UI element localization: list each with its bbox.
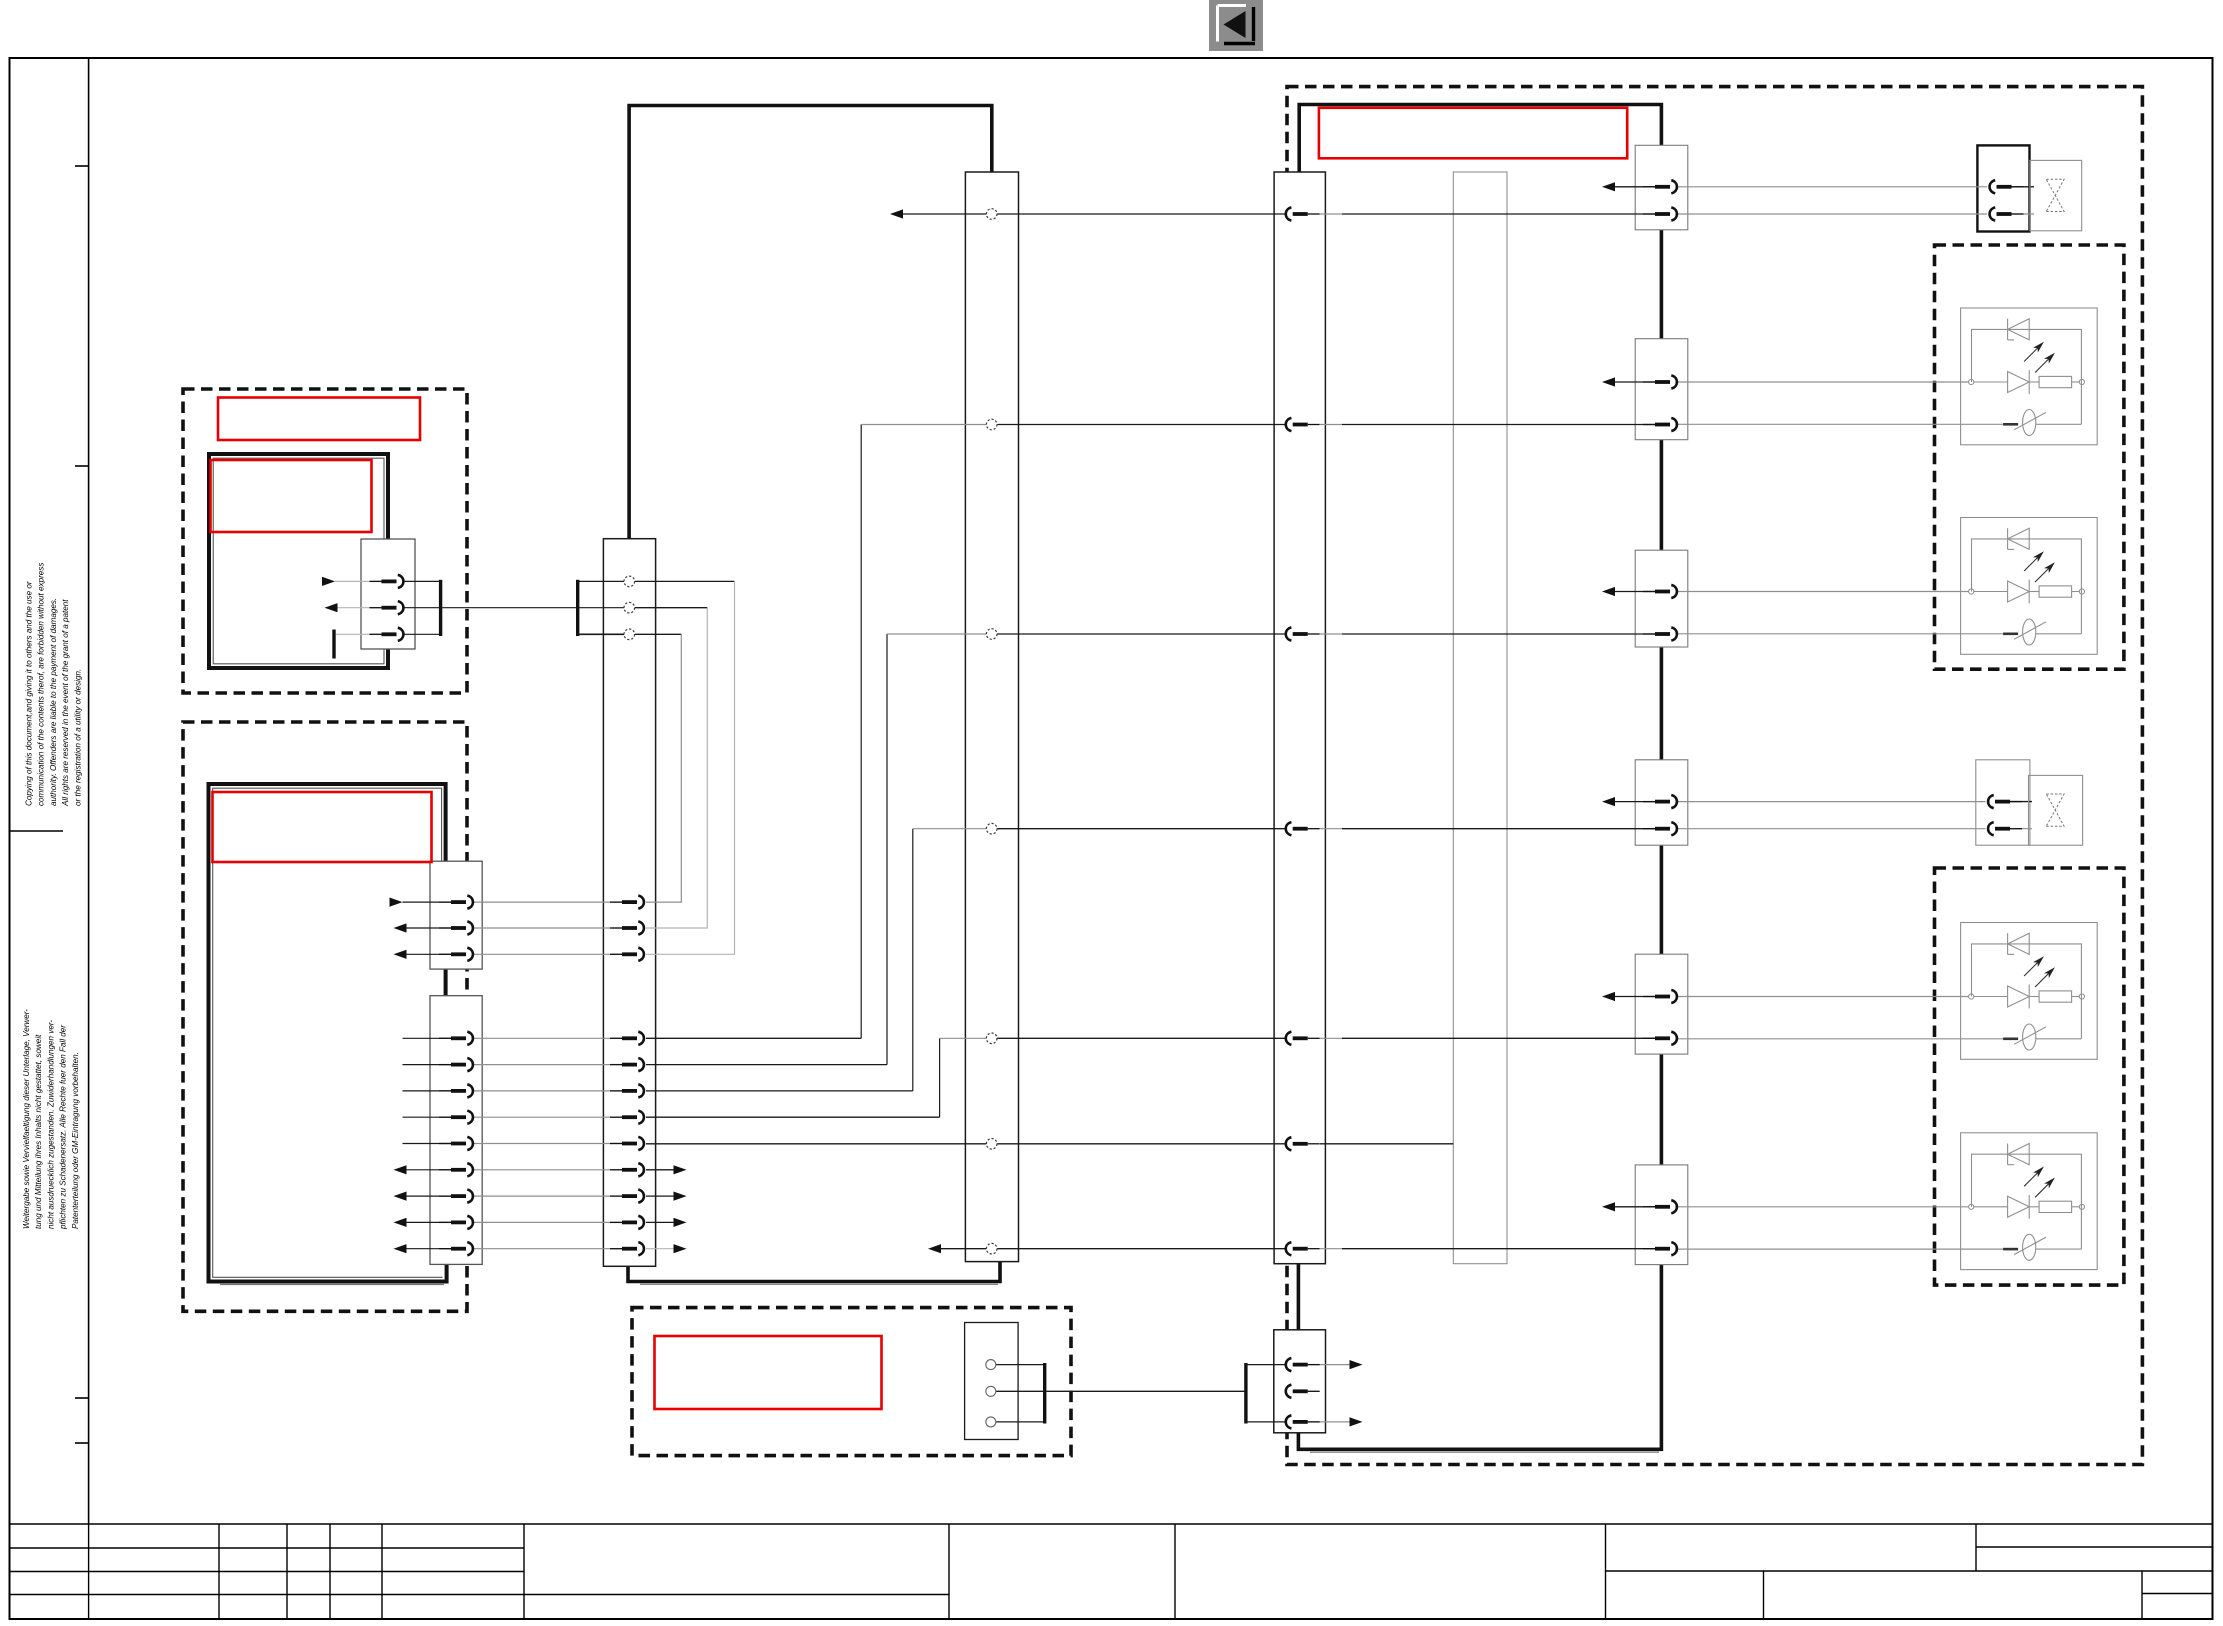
wire X8.5a lead	[1615, 996, 1655, 998]
connector X2a on K2	[430, 861, 482, 969]
wire X8 to E2 (lamp row)	[1678, 633, 2004, 635]
signal arrow X8.2a	[1602, 377, 1615, 386]
signal arrow X6.g	[928, 1244, 941, 1253]
valve connector Y1 box	[1977, 145, 2029, 231]
wire X8 to E1 (led row)	[1678, 381, 1970, 383]
sensor dashed enclosure bottom	[632, 1308, 1071, 1456]
socket circle X9.3	[986, 1417, 996, 1427]
wire Y2.2 into valve	[2009, 828, 2032, 830]
wire K1 pin2 internal	[338, 607, 383, 609]
wire X8 to E1 (lamp row)	[1678, 423, 2004, 425]
pin X2b.2	[439, 1058, 473, 1071]
pin X8.3b	[1643, 627, 1677, 640]
wire K2 lower pin9 internal	[407, 1248, 452, 1250]
LED indicator module E4	[1961, 1133, 2098, 1270]
wire X8 to E2 (led row)	[1678, 591, 1970, 593]
wire X6.g to X7	[997, 1248, 1285, 1250]
svg-text:nicht ausdruecklich zugestande: nicht ausdruecklich zugestanden. Zuwider…	[46, 1020, 55, 1229]
wire stub B4 row3	[1246, 1421, 1286, 1423]
socket circle X5.c	[624, 629, 635, 640]
label placeholder K1 inner	[211, 460, 372, 532]
supply wire X5 top (thick)	[629, 106, 992, 539]
wire net1038 riser	[860, 425, 862, 1039]
wire net1091 top	[913, 828, 987, 830]
pin X7.3	[1286, 627, 1320, 640]
socket circle X6.f	[986, 1139, 997, 1150]
connector column X5	[603, 539, 655, 1267]
module K1 thick body outline	[209, 454, 388, 668]
harness dashed enclosure right	[1287, 87, 2142, 1465]
socket circle X5.a	[624, 576, 635, 587]
pin X5 lower.7	[610, 1190, 644, 1203]
pin X10.3	[1286, 1415, 1320, 1428]
junction bracket B3	[1043, 1363, 1046, 1424]
connector box X8.1	[1635, 145, 1688, 230]
pin X2a.3	[439, 948, 473, 961]
wire X9.2 to X10	[996, 1390, 1246, 1392]
wire stub B2 row3	[578, 633, 624, 635]
copyright notice english (rotated)	[25, 563, 83, 807]
back navigation button	[1209, 0, 1263, 51]
pin X8.3a	[1643, 585, 1677, 598]
label placeholder K2	[213, 792, 432, 862]
pin X2b.5	[439, 1137, 473, 1150]
LED indicator module E1	[1961, 308, 2098, 445]
signal arrow in K1.2	[325, 603, 338, 612]
connector column X7	[1274, 172, 1325, 1264]
wire X5.c loop	[635, 633, 681, 635]
thick wire X5-X6 bottom	[628, 1262, 1000, 1282]
signal arrow out K1.1	[322, 577, 335, 586]
wire Y2.1 into valve	[2009, 801, 2032, 803]
pin X7.4	[1286, 822, 1320, 835]
wire K2 pin2 internal	[407, 927, 452, 929]
wire net1064 riser	[886, 634, 888, 1065]
pin X8.4b	[1643, 822, 1677, 835]
svg-text:authority. Offenders are liabl: authority. Offenders are liable to the p…	[49, 598, 58, 806]
pin X7.7	[1286, 1242, 1320, 1255]
label placeholder top right	[1319, 108, 1627, 159]
wire K1 to column X5 (middle)	[404, 607, 624, 609]
connector box X8.5	[1635, 954, 1688, 1054]
socket circle X6.d	[986, 823, 997, 834]
pin X8.4a	[1643, 795, 1677, 808]
wire K2 pin1 internal	[403, 901, 452, 903]
svg-text:tung und Mitteilung ihres Inha: tung und Mitteilung ihres Inhalts nicht …	[34, 1034, 43, 1229]
solenoid valve Y1 symbol	[2030, 160, 2082, 230]
wire X5 out arrow 3	[646, 1221, 674, 1223]
wire X7 row3 to X8.3	[1320, 633, 1342, 635]
module K1 inner echo	[213, 458, 384, 664]
wire K2 lower pin8 internal	[407, 1221, 452, 1223]
signal arrow in K2 lower pin8	[394, 1218, 407, 1227]
pin X8.1b	[1643, 207, 1677, 220]
wire Y1.2 into valve	[2011, 213, 2035, 215]
wire X6.a to X7	[997, 213, 1285, 215]
connector box X8.6	[1635, 1165, 1688, 1265]
wire X5 out arrow 2	[646, 1195, 674, 1197]
pin X5 lower.6	[610, 1163, 644, 1176]
indicator dashed sub-enclosure 2	[1935, 868, 2124, 1285]
frame inner column line	[88, 58, 90, 1524]
wire net1091 horizontal	[646, 1090, 913, 1092]
pin X8.2a	[1643, 375, 1677, 388]
frame text divider	[10, 830, 64, 832]
frame tick 4	[75, 1442, 89, 1444]
socket circle X5.b	[624, 602, 635, 613]
wire K1 pin1 internal	[335, 580, 382, 582]
wire X7 row6 stub	[1320, 1143, 1453, 1145]
signal arrow X8.3a	[1602, 587, 1615, 596]
wire X8 to E3 (led row)	[1678, 996, 1970, 998]
svg-text:or the registration of a utili: or the registration of a utility or desi…	[73, 669, 82, 806]
wire net1144 horizontal	[646, 1143, 986, 1145]
connector box X8.4	[1635, 760, 1688, 845]
wire X6.d to X7	[997, 828, 1285, 830]
wire net1064 top	[887, 633, 986, 635]
thick wire X7 bottom link	[1297, 1264, 1301, 1330]
wire X8 to E3 (lamp row)	[1678, 1038, 2004, 1040]
wire net1091 riser	[912, 829, 914, 1091]
pin X10.1	[1286, 1358, 1320, 1371]
wire net1117 riser	[939, 1038, 941, 1117]
signal arrow X10.3	[1350, 1417, 1363, 1426]
pin X7.1	[1286, 207, 1320, 220]
wire X5.b loop	[635, 607, 707, 609]
wire X10.1 out	[1307, 1364, 1352, 1366]
pin Y2.1	[1988, 795, 2022, 808]
control unit K2 dashed enclosure	[183, 722, 467, 1311]
wire X5.a riser	[646, 581, 735, 954]
wire X6.b to X7	[997, 424, 1285, 426]
svg-text:Weitergabe sowie Vervielfaelti: Weitergabe sowie Vervielfaeltigung diese…	[22, 1009, 31, 1229]
signal arrow X5.3	[674, 1218, 687, 1227]
wire X8.1b to Y1	[1678, 213, 1988, 215]
wire K2 lower pin3 internal	[403, 1090, 452, 1092]
pin X7.2	[1286, 418, 1320, 431]
wire X8.4b to Y2	[1678, 828, 1986, 830]
pin X7.5	[1286, 1032, 1320, 1045]
socket circle X6.a	[986, 209, 997, 220]
indicator dashed sub-enclosure 1	[1935, 245, 2124, 669]
signal arrow in K2 lower pin6	[394, 1165, 407, 1174]
signal arrow in K2 lower pin9	[394, 1244, 407, 1253]
wire K2 lower pin6 internal	[407, 1169, 452, 1171]
signal arrow X6.a	[890, 209, 903, 218]
thick chain echo	[1310, 1451, 1659, 1453]
wire X5.c riser	[646, 634, 681, 902]
wire net1038 top	[861, 424, 986, 426]
signal arrow in K2.2	[394, 923, 407, 932]
wire X8.2a lead	[1615, 381, 1655, 383]
LED indicator module E3	[1961, 923, 2098, 1060]
svg-text:communication of the contents: communication of the contents therof, ar…	[37, 563, 46, 806]
connector box X8.3	[1635, 550, 1688, 647]
wire net1038 horizontal	[646, 1037, 861, 1039]
junction bracket B2	[576, 580, 579, 636]
pin X1.2	[370, 601, 404, 614]
socket circle X6.e	[986, 1033, 997, 1044]
wire X6.g left	[941, 1248, 986, 1250]
connector box X8.2	[1635, 339, 1688, 440]
socket circle X6.g	[986, 1243, 997, 1254]
pin X1.1	[370, 575, 404, 588]
pin X5 upper.1	[610, 896, 644, 909]
junction bracket B1	[439, 580, 442, 636]
wire K2 lower pin4 internal	[403, 1116, 452, 1118]
pin X2b.8	[439, 1216, 473, 1229]
pin X5 upper.3	[610, 948, 644, 961]
label placeholder bottom	[655, 1336, 882, 1409]
pin Y1.1	[1990, 180, 2024, 193]
signal arrow X5.4	[674, 1244, 687, 1253]
pin X2b.7	[439, 1190, 473, 1203]
signal arrow X8.6a	[1602, 1202, 1615, 1211]
pin X10.2	[1286, 1385, 1320, 1398]
wire X7 row6 to X8.6	[1320, 1248, 1342, 1250]
pin X7.6	[1286, 1137, 1320, 1150]
wire X8 to E4 (lamp row)	[1678, 1248, 2004, 1250]
wire net1117 horizontal	[646, 1116, 940, 1118]
wire X2b.6 to X5	[473, 1169, 622, 1171]
wire X9.3 stub	[996, 1421, 1045, 1423]
wire X9.1 stub	[996, 1364, 1045, 1366]
junction bracket B4	[1244, 1363, 1247, 1424]
wire stub pin1 to bracket	[404, 580, 441, 582]
copyright notice german (rotated)	[22, 1009, 80, 1230]
connector column X6	[965, 172, 1018, 1262]
pin X8.5b	[1643, 1032, 1677, 1045]
pin X8.5a	[1643, 990, 1677, 1003]
wire K2 lower pin1 internal	[403, 1037, 452, 1039]
wire K2 lower pin7 internal	[407, 1195, 452, 1197]
wire X2b.1 to X5	[473, 1037, 622, 1039]
pin X5 upper.2	[610, 921, 644, 934]
signal arrow in K2 lower pin7	[394, 1192, 407, 1201]
wire X2b.8 to X5	[473, 1221, 622, 1223]
svg-text:Copying of this document,and g: Copying of this document,and giving it t…	[25, 581, 34, 806]
wire Y1.1 into valve	[2011, 186, 2035, 188]
signal arrow out K2.1	[390, 898, 403, 907]
wire X2a.3 to X5	[473, 953, 622, 955]
wire X6.e to X7	[997, 1037, 1285, 1039]
socket circle X9.1	[986, 1360, 996, 1370]
wire X8.6a lead	[1615, 1206, 1655, 1208]
bulkhead column (gray)	[1453, 172, 1507, 1264]
pin X2b.4	[439, 1111, 473, 1124]
svg-text:pflichten zu Schadenersatz. Al: pflichten zu Schadenersatz. Alle Rechte …	[59, 1025, 68, 1230]
wire K2 lower pin2 internal	[403, 1064, 452, 1066]
solenoid valve Y2 symbol	[2029, 775, 2083, 845]
pin X2b.6	[439, 1163, 473, 1176]
pin X2b.9	[439, 1242, 473, 1255]
wire X8.1a to Y1	[1678, 186, 1988, 188]
pin X5 lower.1	[610, 1032, 644, 1045]
wire X8.4a to Y2	[1678, 801, 1986, 803]
wire X7 row4 to X8.4	[1320, 828, 1342, 830]
wire net1117 top	[940, 1037, 987, 1039]
wire stub B2 row1	[578, 580, 624, 582]
wire X2b.5 to X5	[473, 1143, 622, 1145]
valve connector Y2 box	[1976, 760, 2030, 845]
frame tick 1	[75, 165, 89, 167]
socket circle X9.2	[986, 1386, 996, 1396]
wire stub pin3 to bracket	[404, 633, 441, 635]
socket circle X6.c	[986, 629, 997, 640]
control unit K1 dashed enclosure	[183, 389, 467, 693]
supply wire X7 top (thick)	[1299, 105, 1661, 173]
signal arrow X10.1	[1350, 1360, 1363, 1369]
wire X7 row1 to X8.1	[1320, 213, 1342, 215]
pin X2a.1	[439, 896, 473, 909]
connector X1 on K1	[361, 539, 415, 649]
wire X6.f to X7	[997, 1143, 1285, 1145]
signal arrow X8.1a	[1602, 182, 1615, 191]
thick ground echo bottom	[640, 1283, 998, 1285]
wire X2b.9 to X5	[473, 1248, 622, 1250]
LED indicator module E2	[1961, 518, 2098, 655]
wire X10.2 stub	[1307, 1390, 1318, 1392]
signal arrow X8.5a	[1602, 992, 1615, 1001]
wire X10.3 out	[1307, 1421, 1352, 1423]
pin X5 lower.2	[610, 1058, 644, 1071]
pin X5 lower.9	[610, 1242, 644, 1255]
pin X5 lower.3	[610, 1084, 644, 1097]
module K2 thick body outline	[209, 784, 447, 1282]
connector box X10	[1274, 1330, 1326, 1433]
wire X8.3a lead	[1615, 591, 1655, 593]
wire X2a.2 to X5	[473, 927, 622, 929]
thick wire X8 chain	[1298, 145, 1661, 1449]
wire X2b.2 to X5	[473, 1064, 622, 1066]
pin X8.6a	[1643, 1200, 1677, 1213]
wire K2 body link between connectors	[444, 969, 448, 996]
wire X2a.1 to X5	[473, 901, 622, 903]
wire K2 pin3 internal	[407, 953, 452, 955]
pin X8.6b	[1643, 1242, 1677, 1255]
terminator bar K1.3	[332, 630, 335, 659]
signal arrow X5.1	[674, 1165, 687, 1174]
wire X6.a left	[903, 213, 986, 215]
signal arrow X5.2	[674, 1192, 687, 1201]
pin X5 lower.8	[610, 1216, 644, 1229]
module K2 inner echo	[213, 788, 443, 1277]
wire X2b.7 to X5	[473, 1195, 622, 1197]
thick K2 echo	[220, 1284, 444, 1286]
svg-text:Patenterteilung oder GM-Eintra: Patenterteilung oder GM-Eintragung vorbe…	[71, 1052, 80, 1229]
pin Y1.2	[1990, 207, 2024, 220]
wire X5 out arrow 4	[646, 1248, 674, 1250]
pin X2b.1	[439, 1032, 473, 1045]
wire X8.4a lead	[1615, 801, 1655, 803]
wire stub B4 row1	[1246, 1364, 1286, 1366]
wire X8.1a lead	[1615, 186, 1655, 188]
wire net1064 horizontal	[646, 1064, 887, 1066]
frame tick 2	[75, 465, 89, 467]
wire K2 lower pin5 internal	[403, 1143, 452, 1145]
signal arrow in K2.3	[394, 950, 407, 959]
wire X7 row5 to X8.5	[1320, 1037, 1342, 1039]
wire K1 pin3 internal	[336, 633, 382, 635]
socket circle X6.b	[986, 419, 997, 430]
title block grid	[10, 1524, 2213, 1619]
wire X8 to E4 (led row)	[1678, 1206, 1970, 1208]
pin X5 lower.4	[610, 1111, 644, 1124]
wire X6.c to X7	[997, 633, 1285, 635]
pin X2b.3	[439, 1084, 473, 1097]
svg-text:All rights are reserved in the: All rights are reserved in the event of …	[61, 599, 70, 807]
pin Y2.2	[1988, 822, 2022, 835]
pin X5 lower.5	[610, 1137, 644, 1150]
pin X1.3	[370, 628, 404, 641]
frame tick 3	[75, 1397, 89, 1399]
wire X7 row2 to X8.2	[1320, 424, 1342, 426]
wire X5.b riser	[646, 608, 707, 928]
wire X2b.4 to X5	[473, 1116, 622, 1118]
wire X2b.3 to X5	[473, 1090, 622, 1092]
signal arrow X8.4a	[1602, 797, 1615, 806]
pin X8.1a	[1643, 180, 1677, 193]
pin X2a.2	[439, 921, 473, 934]
connector X2b on K2	[430, 996, 482, 1265]
wire X5 out arrow 1	[646, 1169, 674, 1171]
connector X9 box	[965, 1323, 1019, 1440]
label placeholder K1	[218, 398, 420, 441]
wire X5.a loop	[635, 580, 735, 582]
pin X8.2b	[1643, 418, 1677, 431]
